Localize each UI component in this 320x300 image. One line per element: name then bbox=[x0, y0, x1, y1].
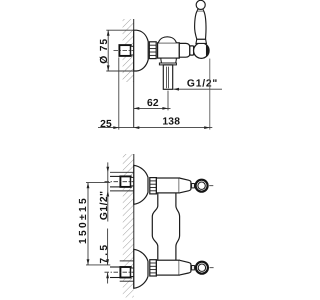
wall surface line bbox=[133, 19, 135, 128]
dimension D75: dimension line with arrows bbox=[107, 30, 110, 71]
outlet step 1 bbox=[161, 58, 176, 63]
svg-text:G1/2": G1/2" bbox=[187, 78, 218, 89]
outlet step flange bbox=[159, 63, 176, 65]
center line of inlet (side view) bbox=[114, 50, 134, 52]
valve body bbox=[158, 43, 180, 58]
svg-text:150±15: 150±15 bbox=[78, 196, 89, 244]
outlet pipe bbox=[163, 65, 172, 89]
bottom inlet hidden edge upper bbox=[120, 260, 134, 262]
top inlet hidden edge lower bbox=[110, 190, 134, 192]
bottom check-valve cylinder bbox=[156, 260, 179, 275]
top ring inner bbox=[198, 182, 205, 189]
ball shading crescent bbox=[206, 44, 209, 56]
bottom inlet supply pipe bbox=[110, 267, 120, 278]
bottom inlet hidden edge lower bbox=[120, 280, 134, 282]
top inlet stub bbox=[131, 177, 134, 186]
bottom ring neck bbox=[192, 266, 195, 270]
bottom inlet stub bbox=[131, 268, 134, 277]
top ring outer bbox=[196, 180, 208, 192]
dimension 62: line and arrows bbox=[134, 107, 171, 110]
top escutcheon (plan bell) bbox=[134, 165, 148, 204]
extension line at handle ball right bbox=[209, 59, 211, 130]
bottom ring axis stub bbox=[210, 267, 214, 269]
dimension G1/2 (plan): upper segment with down arrow bbox=[106, 162, 109, 221]
bottom inlet union nut bbox=[120, 267, 130, 278]
lever neck bbox=[197, 9, 203, 11]
svg-text:7.5: 7.5 bbox=[99, 243, 110, 264]
central body (vase) right profile bbox=[176, 193, 180, 260]
dimension D75: extension lines bbox=[106, 29, 133, 31]
escutcheon flange (side view bell) bbox=[134, 30, 149, 71]
wall hatch (plan) bbox=[123, 154, 134, 298]
supply union nut N1 (in wall) bbox=[119, 45, 130, 56]
dimension 7.5: line with arrows bbox=[106, 229, 109, 284]
bottom cone bbox=[179, 260, 191, 275]
handle hub connector bbox=[179, 43, 190, 57]
bottom escutcheon (plan bell) bbox=[134, 249, 148, 288]
hub ring bbox=[190, 46, 194, 55]
porcelain lever shaft bbox=[195, 11, 206, 39]
bottom inlet center line bbox=[105, 271, 150, 273]
central body (vase) left profile bbox=[152, 193, 158, 260]
svg-text:G1/2": G1/2" bbox=[99, 190, 110, 220]
dimension 25/138: extension line at nut left bbox=[118, 57, 120, 129]
lever top ball bbox=[196, 0, 205, 9]
top cone bbox=[179, 178, 191, 193]
dimension 150+-15: extension lines bbox=[86, 182, 110, 184]
svg-text:25: 25 bbox=[100, 119, 112, 130]
svg-text:62: 62 bbox=[147, 98, 159, 109]
svg-text:Ø 75: Ø 75 bbox=[99, 38, 110, 64]
knurled connector nut bbox=[149, 42, 156, 59]
bottom ring outer bbox=[196, 262, 208, 274]
valve bonnet dome bbox=[158, 37, 176, 43]
top inlet center line bbox=[105, 181, 150, 183]
top inlet union nut bbox=[120, 176, 130, 187]
wall surface line (plan) bbox=[133, 154, 135, 288]
top knurled connector bbox=[150, 178, 157, 194]
wall hatch (top view wall section) bbox=[123, 19, 134, 82]
dimension line 25 and 138 bbox=[98, 126, 212, 129]
union stub to wall face bbox=[131, 46, 134, 55]
top ring axis stub bbox=[209, 185, 213, 187]
top ring neck bbox=[192, 184, 195, 188]
top inlet supply pipe bbox=[110, 176, 120, 187]
bottom knurled connector bbox=[150, 260, 157, 276]
dimension 150+-15: line with arrows bbox=[87, 183, 90, 265]
lever ball joint bbox=[194, 43, 210, 59]
leader line G1/2 outlet bbox=[173, 88, 222, 91]
bottom ring inner bbox=[198, 264, 205, 271]
top inlet hidden edge bbox=[110, 171, 134, 173]
svg-text:138: 138 bbox=[162, 117, 180, 128]
dimension 62: extension line at pipe axis bbox=[167, 91, 169, 111]
top check-valve cylinder bbox=[156, 178, 179, 193]
lever collar bbox=[196, 39, 206, 43]
